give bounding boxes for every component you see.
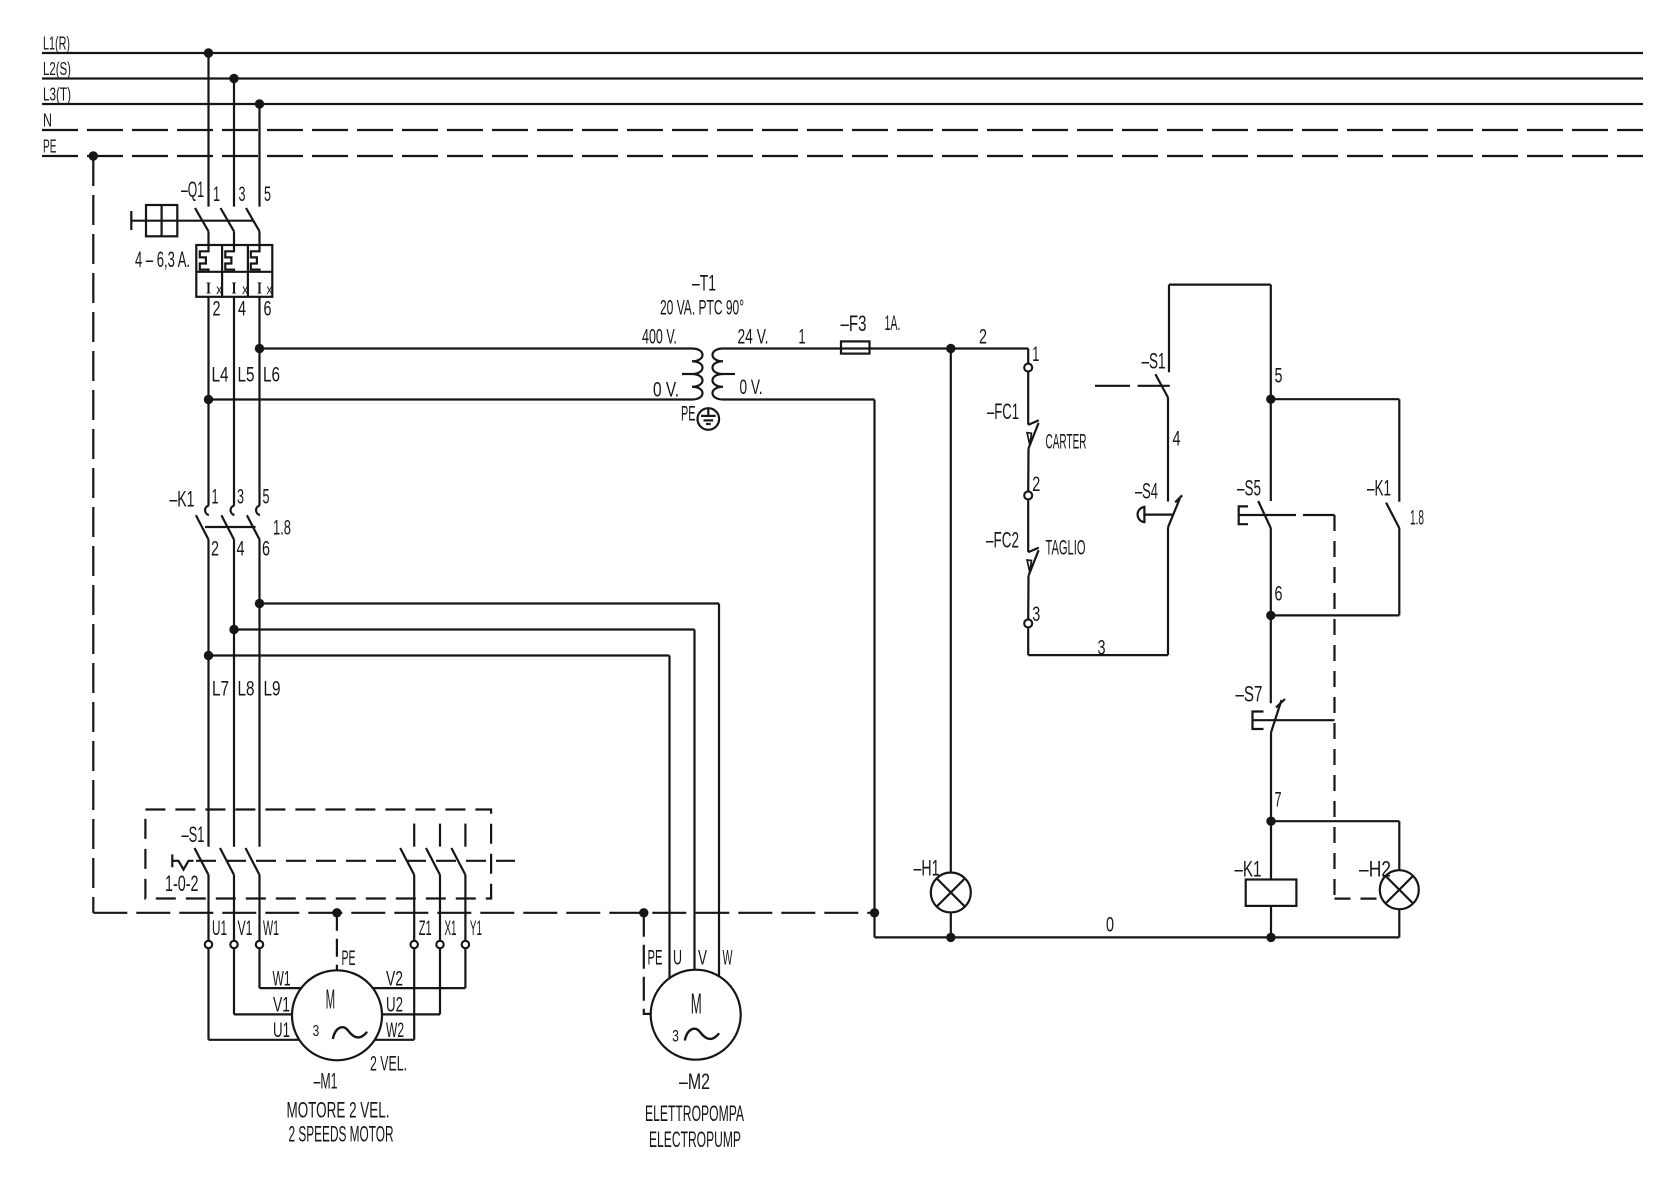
selector S1 right pole xyxy=(439,824,441,847)
breaker Q1 handle bar xyxy=(130,211,132,230)
breaker Q1 output lead (pin 4) xyxy=(233,297,235,506)
svg-text:20 VA. PTC 90°: 20 VA. PTC 90° xyxy=(660,297,744,320)
wire node 2 down to lamp H1 xyxy=(950,349,952,873)
svg-text:L5: L5 xyxy=(238,364,255,387)
pushbutton S7 actuator xyxy=(1253,712,1264,730)
svg-text:3: 3 xyxy=(239,183,246,206)
motor M1 tilde xyxy=(333,1027,367,1038)
wire S7 to node 7 xyxy=(1270,733,1272,822)
wire node 7 to lamp H2 xyxy=(1271,820,1399,822)
svg-text:L6: L6 xyxy=(263,364,280,387)
fuse F3 xyxy=(841,341,870,353)
svg-text:3: 3 xyxy=(672,1027,679,1046)
wire L2 drop to Q1 pole 3 xyxy=(233,79,235,207)
svg-text:M: M xyxy=(691,989,702,1021)
svg-text:1: 1 xyxy=(213,183,220,206)
node L3 tap junction xyxy=(255,99,264,108)
svg-text:Z1: Z1 xyxy=(419,917,432,940)
svg-text:2: 2 xyxy=(979,326,987,349)
wire Z1 to motor M1 (W2) xyxy=(413,948,415,1040)
svg-text:V1: V1 xyxy=(238,917,253,940)
wire terminal 2 to FC2 xyxy=(1027,499,1029,552)
svg-text:4: 4 xyxy=(238,298,246,321)
svg-text:3: 3 xyxy=(1032,603,1040,626)
svg-text:CARTER: CARTER xyxy=(1046,431,1087,454)
svg-text:L7: L7 xyxy=(212,678,229,701)
node 2 junction xyxy=(946,344,955,353)
overload relay Q1 heater element xyxy=(251,245,260,272)
svg-text:4 – 6,3 A.: 4 – 6,3 A. xyxy=(135,247,190,272)
svg-text:–T1: –T1 xyxy=(692,271,716,296)
wire top link S1 to right branch xyxy=(1169,284,1271,286)
wire S5 to node 6 xyxy=(1270,528,1272,703)
wire lamp H2 to 0 rail xyxy=(1398,909,1400,937)
mechanical link S5-S7-H2 (dashed) xyxy=(1333,515,1335,899)
svg-text:4: 4 xyxy=(1173,428,1181,451)
wire PE drop (dashed) to PE bottom run xyxy=(92,156,94,913)
svg-text:L2(S): L2(S) xyxy=(43,58,71,79)
terminal U1 of M1 xyxy=(205,941,212,948)
svg-text:L8: L8 xyxy=(238,678,255,701)
wire K1 aux top lead xyxy=(1398,399,1400,502)
svg-text:W2: W2 xyxy=(386,1019,404,1042)
wire L9 to M2 terminal W xyxy=(260,602,720,604)
pushbutton S5 linkage dash xyxy=(1303,514,1335,516)
svg-text:I: I xyxy=(257,279,262,298)
svg-text:5: 5 xyxy=(1275,365,1283,388)
selector contact S1 linkage tick xyxy=(1138,385,1170,387)
svg-text:1.8: 1.8 xyxy=(273,517,291,540)
contactor K1 pole (pin 1) xyxy=(205,506,209,516)
selector S1 right pole xyxy=(464,824,466,847)
transformer T1 secondary winding xyxy=(713,349,724,400)
wire node 7 to coil K1 xyxy=(1270,821,1272,879)
svg-text:5: 5 xyxy=(263,486,270,509)
wire 0 rail xyxy=(875,936,1400,938)
wire L8 to M2 terminal V xyxy=(234,628,695,630)
svg-text:24 V.: 24 V. xyxy=(738,326,769,349)
wire S4 to wire 3 xyxy=(1167,527,1169,655)
terminal 2 of FC chain xyxy=(1024,491,1032,499)
svg-text:M: M xyxy=(326,984,336,1015)
motor M2 body xyxy=(651,970,741,1060)
svg-text:I: I xyxy=(232,279,237,298)
svg-text:–M1: –M1 xyxy=(314,1069,338,1094)
svg-text:ELECTROPUMP: ELECTROPUMP xyxy=(649,1127,741,1152)
node M1 PE tap xyxy=(332,908,341,917)
svg-text:6: 6 xyxy=(264,298,272,321)
contactor K1 output lead (pin 4) xyxy=(233,540,235,847)
key switch S4 actuator xyxy=(1138,507,1145,522)
svg-text:PE: PE xyxy=(681,403,696,426)
svg-text:0 V.: 0 V. xyxy=(653,379,679,402)
svg-text:2: 2 xyxy=(1032,473,1040,496)
breaker Q1 pole blade (pin 3) xyxy=(221,208,235,231)
pushbutton S5 blade xyxy=(1258,501,1271,528)
contactor K1 output lead (pin 6) xyxy=(258,540,260,847)
node M2 tap on L9 xyxy=(255,599,264,608)
selector S1 left pole blade xyxy=(220,848,234,875)
svg-text:–S4: –S4 xyxy=(1135,479,1158,504)
node 0V tap on L4 xyxy=(204,395,213,404)
wire node 2 to FC chain xyxy=(1027,349,1029,364)
node 400V tap on L6 xyxy=(255,344,264,353)
wire X1 to motor M1 (U2) xyxy=(439,948,441,1014)
svg-text:W1: W1 xyxy=(273,968,291,991)
svg-text:1.8: 1.8 xyxy=(1410,507,1424,530)
wire right branch top (terminal 5) xyxy=(1270,285,1272,501)
svg-text:–F3: –F3 xyxy=(841,311,867,336)
svg-text:–Q1: –Q1 xyxy=(181,177,204,202)
svg-text:–K1: –K1 xyxy=(170,487,195,512)
svg-text:1-0-2: 1-0-2 xyxy=(165,871,199,896)
terminal X1 of M1 xyxy=(436,941,443,948)
svg-text:–S5: –S5 xyxy=(1237,476,1261,501)
svg-text:V2: V2 xyxy=(386,968,403,991)
transformer T1 primary winding xyxy=(692,349,703,400)
contactor K1 output lead (pin 2) xyxy=(207,540,209,847)
svg-text:U2: U2 xyxy=(386,994,403,1017)
wire U1 to motor M1 xyxy=(207,948,209,1040)
terminal W1 of M1 xyxy=(256,941,263,948)
svg-text:–S1: –S1 xyxy=(182,822,205,847)
terminal V1 of M1 xyxy=(230,941,237,948)
svg-text:–K1: –K1 xyxy=(1235,857,1262,882)
svg-text:–M2: –M2 xyxy=(679,1069,710,1094)
svg-text:L1(R): L1(R) xyxy=(43,33,70,54)
svg-text:1: 1 xyxy=(799,326,806,349)
svg-text:–S1: –S1 xyxy=(1142,349,1166,374)
svg-text:2 VEL.: 2 VEL. xyxy=(370,1053,407,1076)
wire lamp H1 to 0 rail xyxy=(950,913,952,938)
wire top link to S1 xyxy=(1168,285,1170,373)
selector S1 linkage (dashed) xyxy=(196,860,515,862)
svg-text:5: 5 xyxy=(264,183,271,206)
contact K1 aux blade xyxy=(1386,503,1399,528)
svg-text:Y1: Y1 xyxy=(470,917,482,940)
bus PE earth rail (dashed) xyxy=(42,155,1643,157)
wire S1 to S4 (terminal 4) xyxy=(1167,398,1169,502)
bus N neutral rail (dashed) xyxy=(42,129,1643,131)
pushbutton S7 blade xyxy=(1271,700,1282,733)
selector S1 handle xyxy=(171,854,173,867)
node L1 tap junction xyxy=(204,48,213,57)
transformer T1 primary tap stub xyxy=(682,373,692,375)
wire PE bottom run (dashed) xyxy=(93,912,874,914)
limit switch FC1 contact xyxy=(1028,420,1039,425)
svg-text:400 V.: 400 V. xyxy=(642,326,677,349)
wire L3 drop to Q1 pole 5 xyxy=(258,104,260,207)
svg-text:2: 2 xyxy=(213,298,221,321)
key switch S4 blade xyxy=(1168,499,1180,528)
svg-text:–FC2: –FC2 xyxy=(986,528,1019,553)
limit switch FC2 contact xyxy=(1028,548,1039,553)
overload relay Q1 heater element xyxy=(200,245,209,272)
wire T1 24V to fuse F3 xyxy=(723,347,841,349)
svg-text:PE: PE xyxy=(648,947,663,970)
svg-text:MOTORE 2 VEL.: MOTORE 2 VEL. xyxy=(287,1098,390,1123)
node M2 tap on L8 xyxy=(229,625,238,634)
svg-text:1: 1 xyxy=(212,486,219,509)
wire fuse F3 to node 2 xyxy=(869,347,1028,349)
terminal 1 of FC chain xyxy=(1024,364,1032,372)
svg-text:2: 2 xyxy=(211,538,219,561)
lamp H2 xyxy=(1380,870,1419,909)
wire M1 PE drop (dashed) xyxy=(336,913,338,971)
svg-text:0: 0 xyxy=(1106,914,1114,937)
svg-text:U: U xyxy=(673,947,682,970)
svg-text:U1: U1 xyxy=(273,1019,290,1042)
svg-text:V1: V1 xyxy=(273,994,290,1017)
wire FC2 to terminal 3 xyxy=(1027,576,1030,620)
svg-text:–K1: –K1 xyxy=(1367,476,1391,501)
node PE tap junction xyxy=(89,151,98,160)
contactor K1 pole link bar xyxy=(205,526,256,528)
node 5 junction xyxy=(1266,395,1275,404)
wire 400V to T1 primary xyxy=(260,347,693,349)
motor M1 body xyxy=(292,970,382,1060)
bus L1(R) phase rail xyxy=(42,52,1643,54)
wire L1 drop to Q1 pole 1 xyxy=(207,53,209,207)
terminal Z1 of M1 xyxy=(411,941,418,948)
svg-text:3: 3 xyxy=(237,486,244,509)
svg-text:6: 6 xyxy=(262,538,270,561)
wire V1 to motor M1 xyxy=(233,948,235,1014)
wire W1 to motor M1 xyxy=(258,948,260,988)
node 7 junction xyxy=(1266,817,1275,826)
overload relay Q1 thermal box xyxy=(196,245,272,297)
selector S1 enclosure (dashed box) xyxy=(145,810,491,899)
lamp H1 xyxy=(931,873,971,913)
selector contact S1 blade xyxy=(1155,374,1168,397)
svg-text:1A.: 1A. xyxy=(885,312,901,335)
svg-text:x: x xyxy=(267,281,273,297)
svg-text:L3(T): L3(T) xyxy=(43,84,71,105)
transformer T1 secondary tap stub xyxy=(723,373,735,375)
svg-text:PE: PE xyxy=(43,136,57,157)
terminal Y1 of M1 xyxy=(462,941,469,948)
svg-text:4: 4 xyxy=(237,538,245,561)
contactor K1 pole (pin 5) xyxy=(256,506,260,516)
svg-text:PE: PE xyxy=(342,947,356,970)
svg-text:1: 1 xyxy=(1032,343,1039,366)
svg-text:W: W xyxy=(723,947,733,970)
breaker Q1 output lead (pin 6) xyxy=(258,297,260,506)
svg-text:I: I xyxy=(206,279,211,298)
node M2 tap on L7 xyxy=(204,651,213,660)
node M2 PE tap xyxy=(639,908,648,917)
svg-text:V: V xyxy=(698,947,707,970)
contactor K1 pole (pin 3) xyxy=(231,506,235,516)
svg-text:0 V.: 0 V. xyxy=(740,376,763,399)
node 6 junction xyxy=(1266,611,1275,620)
coil K1 xyxy=(1246,880,1297,906)
wire node 5 to K1 aux branch xyxy=(1271,398,1400,400)
bus L3(T) phase rail xyxy=(42,103,1643,105)
svg-text:–S7: –S7 xyxy=(1236,682,1263,707)
wire coil K1 to 0 rail xyxy=(1270,906,1272,938)
overload relay Q1 heater element xyxy=(225,245,234,272)
svg-text:TAGLIO: TAGLIO xyxy=(1046,537,1086,560)
svg-text:x: x xyxy=(216,281,222,297)
motor M2 tilde xyxy=(685,1029,719,1040)
svg-text:N: N xyxy=(43,110,52,131)
svg-text:X1: X1 xyxy=(445,917,457,940)
svg-text:x: x xyxy=(242,281,248,297)
svg-text:W1: W1 xyxy=(263,917,279,940)
svg-text:2 SPEEDS MOTOR: 2 SPEEDS MOTOR xyxy=(289,1122,394,1147)
svg-text:–H1: –H1 xyxy=(914,856,940,881)
wire terminal 1 to FC1 xyxy=(1027,372,1029,425)
selector S1 left pole blade xyxy=(246,848,260,875)
breaker Q1 output lead (pin 2) xyxy=(207,297,209,506)
pushbutton S5 actuator xyxy=(1239,506,1248,524)
wire L7 to M2 terminal U xyxy=(209,654,670,656)
terminal 3 of FC chain xyxy=(1024,619,1032,627)
wire M2 PE drop (dashed) xyxy=(644,913,651,1014)
svg-text:7: 7 xyxy=(1275,789,1282,812)
svg-text:3: 3 xyxy=(1098,637,1106,660)
svg-text:U1: U1 xyxy=(212,917,227,940)
svg-text:L4: L4 xyxy=(212,364,229,387)
wire FC1 to terminal 2 xyxy=(1027,449,1030,492)
svg-text:L9: L9 xyxy=(264,678,281,701)
wire 0V to T1 primary xyxy=(209,398,693,400)
node H1 on 0 rail xyxy=(946,933,955,942)
breaker Q1 pole blade (pin 1) xyxy=(195,208,209,231)
wire 3 from FC chain to S4 xyxy=(1027,627,1029,655)
svg-text:3: 3 xyxy=(313,1023,320,1040)
selector S1 left pole blade xyxy=(195,848,209,875)
node L2 tap junction xyxy=(229,74,238,83)
wire Y1 to motor M1 (V2) xyxy=(464,948,466,988)
wire secondary 0V to bottom rail xyxy=(723,398,875,400)
svg-text:6: 6 xyxy=(1275,583,1283,606)
svg-text:ELETTROPOMPA: ELETTROPOMPA xyxy=(645,1101,744,1126)
selector S1 right pole xyxy=(413,824,415,847)
svg-text:–FC1: –FC1 xyxy=(987,399,1019,424)
node PE to 0V junction xyxy=(870,908,879,917)
bus L2(S) phase rail xyxy=(42,77,1643,79)
breaker Q1 pole blade (pin 5) xyxy=(246,208,260,231)
node coil K1 on 0 rail xyxy=(1266,933,1275,942)
wire K1 aux to node 6 xyxy=(1398,528,1400,615)
breaker Q1 handle box xyxy=(146,205,177,236)
